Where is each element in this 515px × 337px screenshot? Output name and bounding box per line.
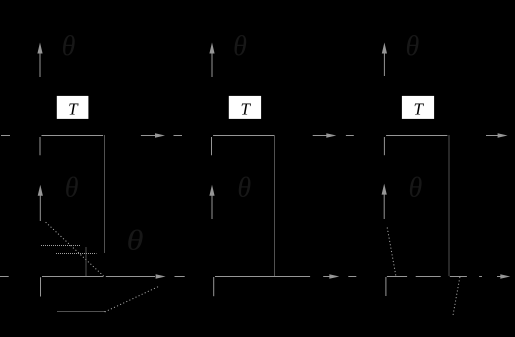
svg-text:θ: θ xyxy=(409,173,423,204)
svg-text:θ: θ xyxy=(406,31,420,62)
svg-text:θ: θ xyxy=(233,31,247,62)
svg-text:θ: θ xyxy=(62,31,76,62)
svg-text:T: T xyxy=(413,100,424,119)
svg-text:T: T xyxy=(240,100,251,119)
svg-text:θ: θ xyxy=(65,173,79,204)
svg-text:T: T xyxy=(68,100,79,119)
svg-text:θ: θ xyxy=(237,173,251,204)
svg-text:θ: θ xyxy=(127,226,144,257)
